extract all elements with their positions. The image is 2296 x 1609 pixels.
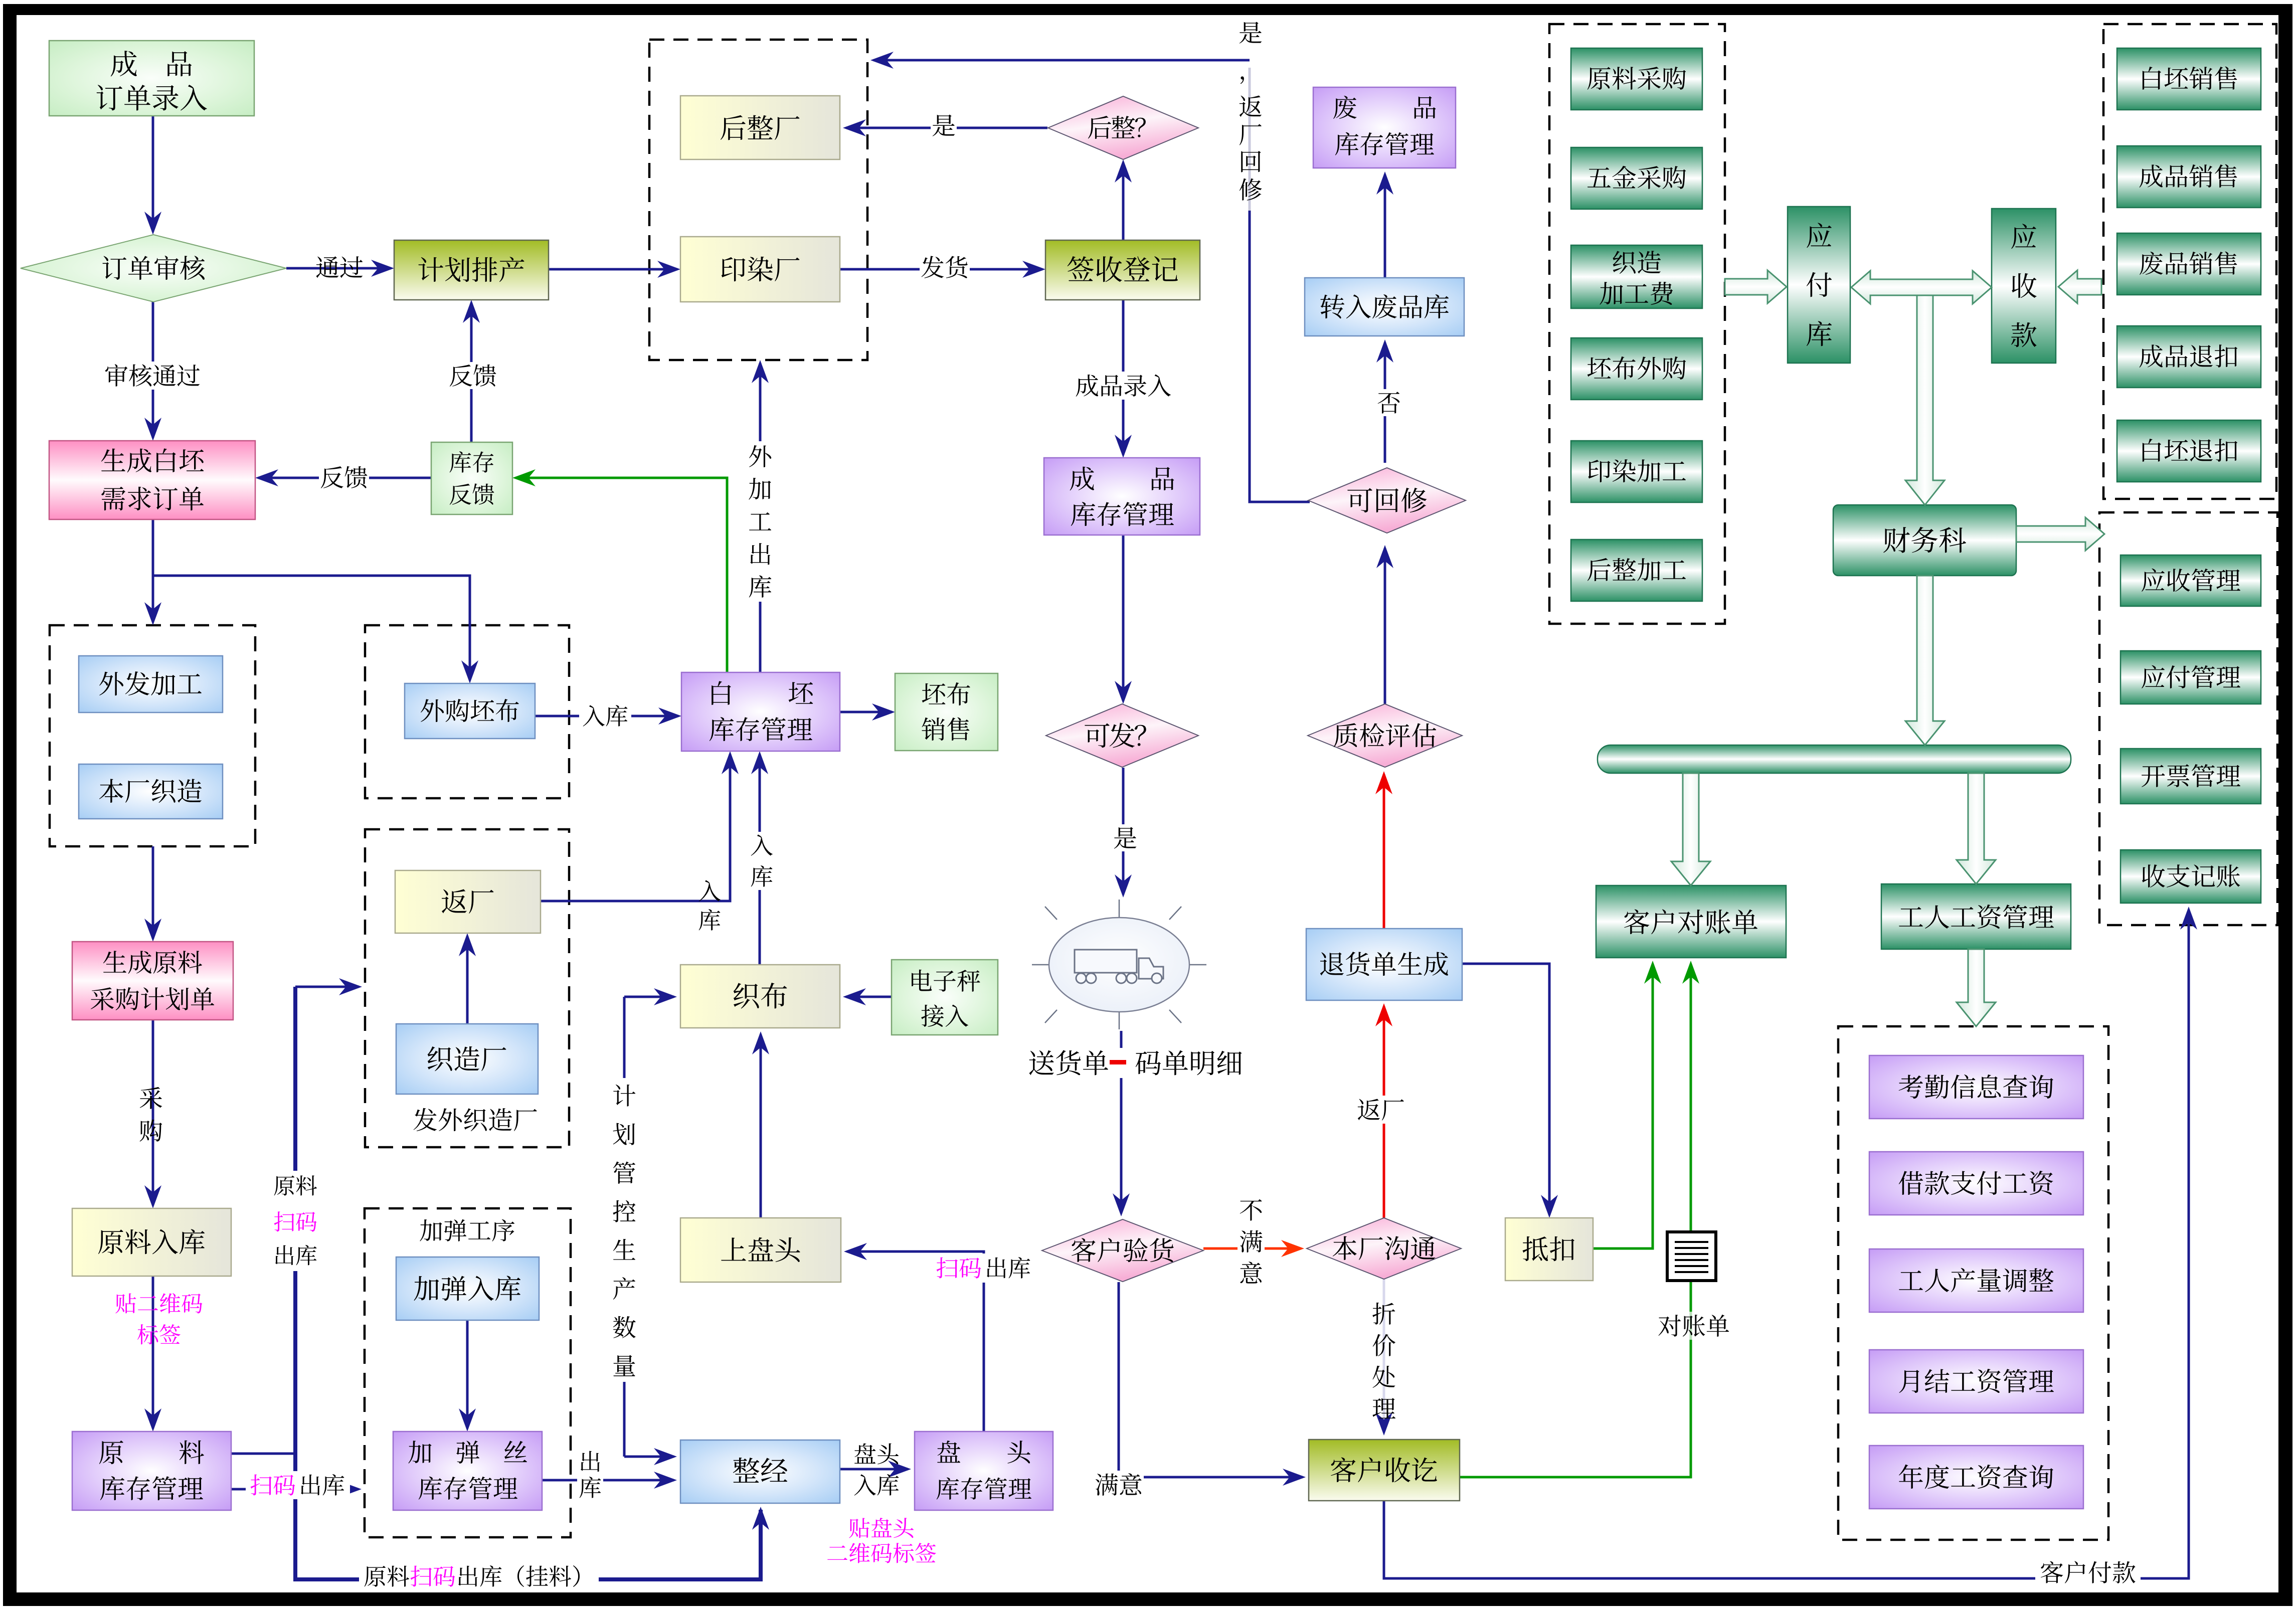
wire 返厂→白坯库存管理 入库: [541, 751, 739, 901]
decision 本厂沟通: [1307, 1218, 1461, 1279]
wire 外发加工组→生成原料采购计划单: [144, 846, 161, 942]
label 加弹工序: [420, 1219, 514, 1241]
process box 成品库存管理: [1044, 458, 1200, 535]
process box 库存反馈: [431, 442, 512, 514]
process box 电子秤接入: [892, 960, 998, 1035]
process box 织造厂: [396, 1024, 538, 1094]
process box 白坯库存管理: [681, 672, 840, 751]
process box 外购坯布: [405, 683, 535, 739]
block arrow 财务科→分发条: [1905, 576, 1945, 745]
label 贴盘头二维码标签: [827, 1518, 936, 1563]
process box 原料库存管理: [72, 1432, 231, 1510]
wire 客户收讫→收支记账 客户付款: [1384, 907, 2197, 1578]
label 入库 (返厂线): [699, 880, 721, 930]
process box 生成原料采购计划单: [72, 942, 233, 1020]
block arrow 分发条→客户对账单: [1671, 773, 1710, 885]
label 计划管控生产数量 (vertical): [613, 1085, 635, 1376]
process box 客户收讫: [1309, 1440, 1460, 1501]
wire 计划管控→织布: [624, 988, 677, 1005]
module box 应收管理: [2121, 555, 2261, 606]
label 入库 (织布线): [749, 832, 774, 890]
module box 借款支付工资: [1869, 1152, 2083, 1215]
process box 织布: [680, 965, 840, 1028]
process box 返厂: [395, 870, 541, 933]
wire 加弹入库→加弹丝库存管理: [459, 1320, 476, 1432]
wire 签收登记→后整?判断: [1115, 159, 1132, 240]
wire 织布→白坯库存管理 入库: [751, 751, 768, 965]
block arrow 工人工资管理→工资模块: [1957, 949, 1996, 1026]
label 发外织造厂: [414, 1108, 537, 1131]
process box 加弹丝库存管理: [393, 1432, 542, 1510]
label 不满意 (vertical): [1238, 1196, 1265, 1287]
wire 签收登记→成品库存管理 成品录入: [1115, 300, 1132, 458]
store box 工人工资管理: [1881, 884, 2071, 949]
wire 订单审核→生成白坯需求订单: [144, 302, 161, 441]
wire 转入废品库→废品库存管理: [1376, 171, 1393, 278]
label 入库 (外购坯布): [579, 702, 631, 730]
wire 印染厂→签收登记 发货: [840, 261, 1045, 278]
wire 白坯库存管理→坯布销售: [840, 703, 895, 721]
decision 可发?: [1046, 704, 1198, 767]
wire 织造厂→返厂: [459, 933, 476, 1024]
module box 工人产量调整: [1869, 1249, 2083, 1312]
wire 可回修→印染后整厂 是,返厂回修: [870, 52, 1310, 502]
process box 印染厂: [680, 237, 840, 302]
process box 盘头库存管理: [915, 1432, 1053, 1510]
module box 后整加工: [1571, 540, 1702, 601]
dashed group 印染/后整厂: [649, 40, 867, 360]
label 是 (可发): [1112, 824, 1138, 851]
wire 计划管控生产数量总线: [623, 997, 626, 1457]
connector bar 财务分发: [1598, 745, 2071, 773]
dashed group 加弹工序: [365, 1208, 571, 1537]
wire 客户验货→本厂沟通 不满意 (red): [1203, 1240, 1304, 1257]
process box 签收登记: [1045, 240, 1200, 300]
process box 上盘头: [680, 1218, 841, 1282]
dashed group 外发加工/本厂织造: [50, 625, 255, 846]
label 外加工出库 (vertical): [749, 445, 771, 598]
module box 月结工资管理: [1869, 1350, 2083, 1413]
wire 客户验货→客户收讫 满意: [1119, 1282, 1306, 1486]
wire 订单审核→计划排产 通过: [286, 260, 394, 277]
wire 退货单生成→抵扣: [1462, 964, 1558, 1218]
decision 后整?: [1048, 96, 1198, 159]
module box 印染加工: [1571, 441, 1702, 502]
module box 废品销售: [2117, 233, 2261, 295]
module box 收支记账: [2121, 850, 2261, 903]
label 反馈 (计划排产): [448, 362, 498, 389]
label 是 (后整): [931, 112, 957, 139]
wire 退货单生成→质检评估 (red): [1375, 771, 1392, 929]
wire 抵扣→客户对账单 (green): [1593, 961, 1661, 1248]
decision 客户验货: [1042, 1219, 1203, 1282]
label 扫码出库 (上盘头): [931, 1254, 1036, 1283]
wire 成品订单录入→订单审核: [144, 116, 161, 235]
label 客户付款: [2035, 1558, 2141, 1587]
module box 五金采购: [1571, 147, 1702, 209]
wire 库存反馈→生成白坯需求订单 反馈: [255, 469, 431, 486]
process box 退货单生成: [1306, 929, 1462, 1000]
label 出库 (加弹丝→整经): [577, 1446, 603, 1504]
label 采购 (vertical): [140, 1087, 162, 1142]
dashed group 采购/加工费用: [1549, 24, 1725, 624]
dashed group 外购坯布: [365, 625, 569, 798]
dashed group 工资管理: [1838, 1026, 2108, 1540]
module box 成品销售: [2117, 146, 2261, 208]
wire 送货→客户验货: [1113, 1031, 1130, 1216]
wire 白坯库存管理→库存反馈 (green): [512, 469, 727, 672]
label 是，返厂回修 (vertical): [1240, 22, 1262, 200]
wire 质检评估→可回修: [1376, 545, 1393, 704]
process box 计划排产: [394, 240, 549, 300]
wire 本厂沟通→客户收讫 折价处理: [1375, 1279, 1392, 1436]
module box 白坯退扣: [2117, 420, 2261, 482]
module box 白坯销售: [2117, 48, 2261, 110]
wire 原料总线→发外织造厂: [295, 978, 362, 995]
store box 应付库: [1788, 207, 1850, 363]
document icon 对账单: [1667, 1232, 1716, 1281]
module box 考勤信息查询: [1869, 1055, 2083, 1119]
block arrow 分发条→工人工资管理: [1957, 773, 1996, 884]
block arrow 应付库↔应收款: [1851, 271, 1992, 304]
decision 订单审核: [21, 235, 286, 302]
module box 原料采购: [1571, 48, 1702, 110]
process box 坯布销售: [895, 673, 998, 751]
dashed group 销售/退扣: [2103, 24, 2276, 499]
label 否: [1376, 389, 1402, 416]
wire 原料库存管理→加弹工序 扫码出库: [231, 1481, 362, 1498]
block arrow 织造加工费→应付库: [1725, 270, 1787, 303]
process box 废品库存管理: [1313, 87, 1456, 168]
label 满意: [1094, 1471, 1144, 1499]
process box 成品订单录入: [49, 41, 254, 116]
wire 可回修→转入废品库 否: [1376, 339, 1393, 463]
dashed group 发外织造厂: [365, 829, 569, 1147]
wire 计划排产→印染厂: [549, 261, 680, 278]
label 返厂 (red线): [1355, 1096, 1407, 1124]
process box 本厂织造: [79, 764, 223, 819]
label 原料扫码出库 (vertical): [270, 1171, 320, 1271]
wire 后整?→后整厂 是: [843, 119, 1047, 136]
wire 原料库存管理→原料出库总线: [231, 1453, 295, 1455]
process box 原料入库: [72, 1208, 231, 1276]
wire 白坯库存管理→印染后整厂 外加工出库: [752, 360, 769, 672]
label 贴二维码标签: [115, 1293, 202, 1345]
label 原料扫码出库（挂料）: [359, 1562, 599, 1590]
wire 生成白坯需求订单→外购坯布: [153, 576, 478, 683]
truck delivery symbol: [1032, 900, 1206, 1029]
label 送货单-码单明细: [1026, 1048, 1247, 1078]
process box 加弹入库: [396, 1257, 539, 1320]
store box 客户对账单: [1596, 885, 1786, 958]
process box 抵扣: [1505, 1218, 1593, 1281]
label 发货: [920, 254, 970, 281]
wire 可发?→送货 是: [1115, 768, 1132, 898]
module box 成品退扣: [2117, 326, 2261, 388]
wire 客户收讫→对账单→客户对账单 (green): [1460, 961, 1699, 1477]
wire 计划管控→整经: [624, 1448, 677, 1465]
wire 电子秤接入→织布: [843, 988, 892, 1005]
label 反馈 (生成白坯): [319, 464, 369, 491]
label 审核通过: [102, 362, 203, 390]
block arrow 财务科→财务管理模块: [2016, 517, 2104, 551]
label 对账单: [1653, 1312, 1735, 1340]
decision 可回修: [1308, 468, 1466, 533]
wire 整经→盘头库存管理 盘头入库: [840, 1461, 911, 1478]
module box 织造加工费: [1571, 245, 1702, 308]
label 折价处理 (vertical): [1372, 1303, 1395, 1418]
wire 库存反馈→计划排产 反馈: [463, 300, 480, 442]
wire 上盘头→织布: [752, 1031, 769, 1218]
store box 应收款: [1992, 209, 2056, 363]
wire 生成原料采购计划单→原料入库 采购: [144, 1020, 161, 1208]
wire 原料入库→原料库存管理 贴二维码标签: [144, 1273, 161, 1432]
module box 应付管理: [2121, 651, 2261, 704]
label 盘头入库: [854, 1443, 899, 1495]
decision 质检评估: [1308, 704, 1462, 767]
wire 成品库存管理→可发?: [1115, 535, 1132, 704]
module box 开票管理: [2121, 749, 2261, 804]
module box 坯布外购: [1571, 338, 1702, 400]
label 通过: [316, 256, 363, 278]
wire 本厂沟通→退货单生成 返厂 (red): [1375, 1003, 1392, 1218]
wire 加弹丝库存管理→整经 出库: [542, 1472, 677, 1489]
block arrow 销售退扣→应收款: [2058, 270, 2101, 303]
process box 后整厂: [680, 96, 840, 159]
process box 生成白坯需求订单: [49, 441, 255, 519]
label 扫码出库 (原料): [246, 1471, 350, 1499]
wire 原料总线 纵向: [295, 987, 769, 1579]
wire 盘头库存管理→上盘头 扫码出库: [844, 1243, 984, 1432]
store box 财务科: [1833, 505, 2016, 576]
block arrow 往来→财务科: [1905, 295, 1945, 505]
dashed group 财务管理: [2099, 512, 2277, 925]
module box 年度工资查询: [1869, 1446, 2083, 1509]
wire 生成白坯需求订单→外发加工组: [144, 519, 161, 625]
label 成品录入: [1073, 372, 1173, 400]
wire 外购坯布→白坯库存管理 入库: [535, 707, 681, 725]
process box 转入废品库: [1305, 278, 1464, 336]
process box 外发加工: [79, 656, 223, 712]
process box 整经: [680, 1440, 840, 1503]
